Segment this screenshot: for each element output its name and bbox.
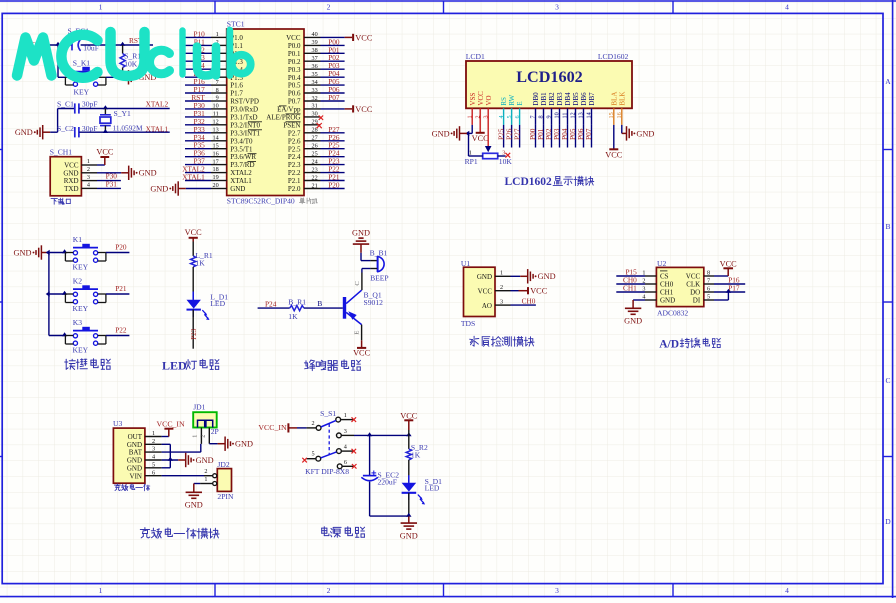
wire MCU pin 16 (P3.6/WR)	[185, 149, 227, 158]
svg-text:20: 20	[213, 182, 219, 189]
svg-text:4: 4	[87, 182, 90, 189]
svg-text:B_B1: B_B1	[370, 249, 388, 258]
svg-text:2: 2	[152, 438, 155, 445]
caption 下载口	[51, 198, 70, 204]
svg-text:39: 39	[312, 39, 318, 46]
svg-text:7: 7	[707, 277, 710, 284]
pin 9 LCD	[546, 115, 553, 118]
svg-text:P2.7: P2.7	[288, 129, 301, 137]
svg-text:BLK: BLK	[618, 92, 626, 106]
ground GND (JD1)	[218, 437, 253, 451]
wire MCU pin 17 (P3.7/RD)	[185, 157, 227, 166]
svg-text:30pF: 30pF	[82, 100, 98, 109]
wire MCU pin 33 (P0.6)	[304, 85, 345, 94]
power VCC (power circuit)	[400, 412, 418, 436]
svg-text:LCD1602: LCD1602	[598, 52, 629, 61]
LED S_D1	[402, 475, 443, 504]
pin 11 LCD	[562, 113, 569, 119]
svg-text:KEY: KEY	[73, 263, 89, 272]
svg-text:36: 36	[312, 63, 318, 70]
svg-text:XTAL1: XTAL1	[230, 177, 252, 185]
svg-text:VCC_IN: VCC_IN	[258, 423, 287, 432]
svg-text:EA/Vpp: EA/Vpp	[277, 106, 301, 114]
svg-text:LED: LED	[210, 299, 225, 308]
svg-text:P3.0/RxD: P3.0/RxD	[230, 106, 258, 114]
svg-text:P1.7: P1.7	[230, 90, 243, 98]
wire buzzer to collector	[354, 269, 377, 291]
pin 12 LCD	[570, 112, 577, 118]
wire MCU pin 24 (P2.3)	[304, 157, 345, 166]
svg-text:GND: GND	[400, 532, 418, 541]
power VCC_IN (power circuit)	[258, 423, 297, 433]
wire U1 pin2 to VCC	[495, 284, 519, 291]
svg-text:VCC: VCC	[185, 228, 203, 237]
wire U3 pin2	[162, 443, 171, 445]
svg-text:2: 2	[204, 468, 207, 475]
svg-text:GND: GND	[63, 169, 78, 177]
wire MCU pin 11 (P3.1/TxD)	[185, 109, 227, 118]
wire MCU pin 32 (P0.7)	[304, 93, 345, 102]
pin 15 LCD	[608, 112, 615, 118]
svg-text:3: 3	[502, 149, 505, 156]
pin 3 LCD	[482, 115, 489, 118]
svg-text:GND: GND	[139, 169, 157, 178]
svg-text:2: 2	[199, 435, 206, 438]
svg-text:5: 5	[312, 451, 315, 458]
svg-text:22: 22	[312, 174, 318, 181]
svg-text:DB4: DB4	[564, 92, 572, 106]
svg-text:GND: GND	[538, 272, 556, 281]
wire emitter to VCC	[354, 325, 362, 341]
wire LCD pin14 DB7 net P07	[584, 108, 593, 147]
wire trunk to K2	[49, 291, 67, 295]
node junction DO/DI	[726, 289, 731, 293]
no-ERC mark S_S1 pin1	[352, 417, 357, 422]
svg-text:VIN: VIN	[130, 472, 142, 480]
svg-text:KEY: KEY	[73, 346, 89, 355]
wire MCU pin 29 (PSEN)	[304, 119, 321, 126]
svg-text:GND: GND	[127, 441, 142, 449]
svg-text:DB6: DB6	[580, 92, 588, 106]
svg-text:E: E	[516, 101, 524, 105]
wire MCU pin 34 (P0.5)	[304, 77, 345, 86]
label 单片机	[300, 198, 318, 204]
wire K2 to net P21	[106, 284, 129, 294]
svg-text:3: 3	[152, 446, 155, 453]
LED L_D1	[187, 292, 229, 321]
svg-text:K1: K1	[73, 235, 82, 244]
svg-text:2P: 2P	[211, 427, 219, 436]
pin 1 JD1	[191, 428, 201, 444]
svg-text:DB0: DB0	[532, 92, 540, 106]
connector JD1 2P	[193, 402, 219, 436]
wire MCU pin 31 (EA/Vpp)	[304, 103, 345, 110]
wire trunk to K3	[49, 332, 67, 336]
svg-text:P3.7/RD: P3.7/RD	[230, 161, 254, 169]
wire trunk to K1	[49, 249, 67, 253]
svg-text:P3.5/T1: P3.5/T1	[230, 145, 253, 153]
svg-text:BAT: BAT	[129, 449, 143, 457]
wire MCU pin 12 (P3.2/INT0)	[185, 117, 227, 126]
svg-text:1K: 1K	[288, 312, 298, 321]
svg-text:LED: LED	[425, 483, 440, 492]
svg-text:PSEN: PSEN	[283, 121, 300, 129]
wire MCU pin 9 (RST/VPD)	[185, 93, 227, 102]
svg-text:P2.4: P2.4	[288, 153, 301, 161]
svg-text:ALE/PROG: ALE/PROG	[266, 114, 300, 122]
pin 8 LCD	[538, 115, 545, 118]
ground GND (buzzer)	[352, 228, 370, 253]
svg-text:P0.7: P0.7	[288, 98, 301, 106]
svg-text:DB5: DB5	[572, 92, 580, 106]
wire U3 pin5	[162, 467, 171, 469]
node junction VCC column	[406, 432, 411, 436]
svg-text:3: 3	[555, 586, 559, 595]
power VCC (MCU pin 40)	[345, 33, 373, 42]
resistor L_R1 1K	[191, 251, 213, 267]
wire MCU pin 22 (P2.1)	[304, 173, 345, 182]
wire U2 pin6 P17	[704, 283, 745, 292]
svg-text:CLK: CLK	[686, 281, 700, 289]
svg-text:LCD1602: LCD1602	[505, 176, 553, 188]
svg-text:GND: GND	[235, 440, 253, 449]
svg-text:P0.3: P0.3	[288, 66, 301, 74]
svg-text:S_C2: S_C2	[57, 124, 74, 133]
svg-text:GND: GND	[230, 185, 245, 193]
wire MCU pin 20 (GND)	[186, 182, 227, 189]
wire LCD pin3 VO	[487, 108, 489, 146]
svg-text:2PIN: 2PIN	[217, 492, 234, 501]
svg-text:16: 16	[213, 150, 219, 157]
svg-text:KFT DIP-8X8: KFT DIP-8X8	[305, 467, 349, 476]
label 充放电一体 (U3)	[114, 484, 149, 491]
svg-text:P20: P20	[328, 181, 340, 190]
svg-text:11: 11	[213, 111, 219, 118]
svg-text:GND: GND	[15, 128, 33, 137]
pin 7 LCD	[530, 115, 537, 118]
wire LCD pin7 DB0 net P00	[528, 108, 537, 147]
pin 13 LCD	[578, 112, 585, 118]
svg-text:A: A	[885, 77, 891, 86]
svg-text:30: 30	[312, 111, 318, 118]
svg-text:12: 12	[213, 119, 219, 126]
svg-text:4: 4	[785, 3, 789, 12]
svg-text:P2.0: P2.0	[288, 185, 301, 193]
svg-text:9: 9	[216, 95, 219, 102]
svg-text:DI: DI	[693, 297, 701, 305]
svg-text:37: 37	[312, 55, 318, 62]
power VCC (LCD pin15 BLA)	[605, 108, 623, 159]
wire MCU pin 37 (P0.2)	[304, 53, 345, 62]
module U3 充放电一体	[113, 419, 145, 483]
svg-text:6: 6	[344, 459, 347, 466]
svg-text:LED: LED	[162, 359, 187, 373]
svg-text:GND: GND	[624, 317, 642, 326]
wire MCU pin 23 (P2.2)	[304, 165, 345, 174]
switch S_S1 KFT DIP-8X8	[305, 409, 354, 476]
ground GND (power circuit)	[400, 516, 418, 541]
power VCC (download port)	[96, 147, 114, 165]
push button K3 KEY	[65, 318, 106, 355]
wire LCD pin4 RS net P25	[496, 108, 505, 147]
svg-text:1K: 1K	[411, 451, 421, 460]
wire U1 pin3 CH0	[495, 296, 536, 305]
wire K1 to net P20	[106, 243, 129, 253]
svg-text:10K: 10K	[124, 59, 138, 68]
pin 6 LCD	[514, 115, 521, 118]
svg-text:P3.1/TxD: P3.1/TxD	[230, 114, 257, 122]
wire MCU pin 18 (XTAL2)	[182, 165, 226, 174]
pin 14 LCD	[586, 112, 593, 118]
power VCC (LCD pin2)	[472, 108, 490, 143]
wire LCD pin1 VSS to gnd	[467, 108, 472, 133]
pin 3 U3 stub	[145, 446, 162, 453]
svg-text:2: 2	[500, 284, 503, 291]
wire cap to RST net	[81, 44, 153, 46]
svg-text:GND: GND	[636, 129, 654, 138]
svg-text:DB2: DB2	[548, 92, 556, 106]
svg-text:5: 5	[707, 293, 710, 300]
svg-text:11.0592M: 11.0592M	[113, 123, 143, 132]
wire MCU pin 36 (P0.3)	[304, 61, 345, 70]
svg-text:VCC: VCC	[353, 349, 371, 358]
svg-text:VCC: VCC	[64, 162, 79, 170]
ground GND (reset)	[121, 70, 156, 84]
wire xtal1	[79, 131, 169, 133]
wire JD2 pin1 to gnd	[194, 476, 213, 483]
svg-text:A/D: A/D	[659, 338, 679, 350]
power VCC_IN (U3 pin1)	[157, 419, 186, 436]
svg-text:RW: RW	[508, 94, 516, 105]
caption A/D转换电路	[659, 338, 720, 350]
svg-text:DB3: DB3	[556, 92, 564, 106]
module U1 TDS	[461, 259, 495, 328]
no-ERC mark pin 29	[317, 123, 322, 128]
wire MCU pin 25 (P2.4)	[304, 149, 345, 158]
svg-text:CH1: CH1	[660, 289, 674, 297]
svg-text:10: 10	[213, 103, 219, 110]
wire MCU pin 5 (P1.4)	[185, 61, 227, 70]
no-ERC mark pin 30	[319, 116, 323, 120]
svg-text:P21: P21	[115, 284, 127, 293]
connector JD2 2PIN	[213, 460, 234, 501]
buzzer B_B1 BEEP	[370, 249, 389, 283]
svg-text:P2.1: P2.1	[288, 177, 301, 185]
svg-text:P2.2: P2.2	[288, 169, 301, 177]
wire U3 pin3 BAT	[162, 444, 201, 452]
svg-text:VCC: VCC	[720, 260, 738, 269]
svg-text:40: 40	[312, 31, 318, 38]
svg-text:P27: P27	[512, 128, 521, 140]
wire U3 pin6 VIN	[162, 475, 204, 477]
wire MCU pin 13 (P3.3/INT1)	[185, 125, 227, 134]
capacitor S_C2 30pF	[57, 124, 98, 137]
svg-text:1: 1	[152, 430, 155, 437]
no-ERC mark S_S1 pin6	[352, 464, 357, 469]
node junction resistor top	[120, 42, 125, 46]
svg-text:3: 3	[344, 428, 347, 435]
wire MCU pin 35 (P0.4)	[304, 69, 345, 78]
svg-text:14: 14	[213, 134, 219, 141]
wire MCU pin 30 (ALE/PROG)	[304, 111, 321, 118]
ground GND (JD2)	[185, 484, 203, 510]
svg-text:P17: P17	[728, 283, 740, 292]
wire key right to RST	[106, 45, 114, 77]
svg-text:21: 21	[312, 182, 318, 189]
wire LCD pin13 DB6 net P06	[576, 108, 585, 147]
wire to switch pin2	[297, 427, 307, 429]
wire MCU pin 28 (P2.7)	[304, 125, 345, 134]
wire MCU pin 1 (P1.0)	[185, 29, 227, 38]
ground GND (LCD left)	[432, 126, 467, 140]
svg-text:GND: GND	[185, 501, 203, 510]
wire MCU pin 14 (P3.4/T0)	[185, 133, 227, 142]
svg-text:2: 2	[642, 277, 645, 284]
svg-text:3: 3	[500, 298, 503, 305]
svg-text:2: 2	[87, 166, 90, 173]
wire base	[304, 299, 343, 308]
svg-text:8: 8	[216, 87, 219, 94]
svg-text:BEEP: BEEP	[370, 274, 389, 283]
svg-text:38: 38	[312, 47, 318, 54]
pin 2 JD1	[199, 428, 209, 444]
wire gnd to buzzer	[361, 253, 377, 261]
svg-text:RP1: RP1	[465, 157, 478, 166]
wire U2 pin3 CH1	[616, 283, 656, 292]
svg-text:GND: GND	[196, 456, 214, 465]
svg-text:3: 3	[555, 3, 559, 12]
svg-text:VCC: VCC	[478, 287, 493, 295]
caption 充放电一体模块	[140, 528, 219, 539]
ground GND (LCD right)	[622, 126, 655, 140]
power VCC (LED)	[185, 228, 203, 241]
ground GND (U1)	[520, 269, 555, 283]
svg-text:KEY: KEY	[73, 304, 89, 313]
svg-text:RS: RS	[500, 97, 508, 106]
svg-text:2: 2	[327, 586, 331, 595]
wire MCU pin 2 (P1.1)	[185, 37, 227, 46]
resistor S_R1 10K	[120, 45, 141, 77]
wire R2 to LED	[408, 460, 410, 483]
svg-text:P1.6: P1.6	[230, 82, 243, 90]
svg-text:VCC: VCC	[96, 147, 114, 156]
svg-text:32: 32	[312, 95, 318, 102]
wire U2 pin7 P16	[704, 275, 745, 284]
svg-text:DB7: DB7	[588, 92, 596, 106]
no-ERC mark S_S1 pin5	[302, 458, 307, 463]
wire LCD pin11 DB4 net P04	[560, 108, 569, 147]
ground GND (keys)	[14, 245, 49, 259]
svg-text:RST/VPD: RST/VPD	[230, 98, 259, 106]
svg-text:31: 31	[312, 103, 318, 110]
svg-text:4: 4	[152, 454, 155, 461]
pin 5 LCD	[506, 115, 513, 118]
svg-text:VCC: VCC	[355, 105, 373, 114]
svg-text:8: 8	[707, 269, 710, 276]
svg-text:D: D	[885, 517, 891, 526]
svg-text:3: 3	[87, 174, 90, 181]
wire U2 pin8 to VCC	[704, 269, 728, 276]
pin 6 U3 stub	[145, 469, 162, 476]
svg-text:GND: GND	[14, 248, 32, 257]
svg-text:24: 24	[312, 158, 318, 165]
capacitor S_C1 30pF	[57, 100, 98, 114]
svg-text:1: 1	[87, 158, 90, 165]
svg-text:18: 18	[213, 166, 219, 173]
pin 4 LCD	[498, 115, 505, 118]
wire MCU pin 10 (P3.0/RxD)	[185, 101, 227, 110]
svg-text:17: 17	[213, 158, 219, 165]
svg-text:1: 1	[99, 586, 103, 595]
ground GND (MCU pin 20)	[150, 181, 185, 195]
wire MCU pin 21 (P2.0)	[304, 181, 345, 190]
power VCC (MCU pin 31 EA)	[345, 105, 373, 114]
caption LED灯电路	[162, 359, 219, 373]
svg-text:K2: K2	[73, 277, 82, 286]
svg-text:2: 2	[327, 3, 331, 12]
wire MCU pin 6 (P1.5)	[185, 69, 227, 78]
svg-text:S_C1: S_C1	[57, 100, 74, 109]
node junction cap branch	[367, 432, 372, 436]
power VCC (buzzer)	[353, 340, 371, 357]
svg-text:XTAL2: XTAL2	[146, 99, 169, 108]
svg-text:CH0: CH0	[660, 281, 674, 289]
svg-text:VCC: VCC	[472, 134, 490, 143]
svg-text:U3: U3	[113, 419, 122, 428]
svg-text:GND: GND	[660, 297, 675, 305]
svg-text:VCC: VCC	[605, 150, 623, 159]
caption 按键电路	[65, 359, 111, 370]
resistor S_R2 1K	[406, 443, 428, 460]
transistor B_Q1 S9012	[343, 290, 383, 324]
wire U2 pin2 CH0	[616, 275, 656, 284]
svg-text:P0.5: P0.5	[288, 82, 301, 90]
power VCC (U1)	[519, 287, 548, 296]
svg-text:1: 1	[500, 270, 503, 277]
wire LCD pin12 DB5 net P05	[568, 108, 577, 147]
node junction key-right riser	[111, 42, 116, 46]
node junction xtal2	[103, 105, 108, 109]
wire pin3 P30	[97, 172, 121, 181]
svg-text:S9012: S9012	[364, 298, 384, 307]
svg-text:GND: GND	[352, 228, 370, 237]
pin 1 U3 stub	[145, 430, 162, 437]
ground GND (download port)	[121, 166, 156, 180]
chip U2 ADC0832	[656, 259, 703, 317]
wire LCD pin16 BLK to gnd	[621, 108, 623, 133]
wire pin2 to gnd	[97, 172, 121, 174]
wire LCD pin9 DB2 net P02	[544, 108, 553, 147]
svg-text:VCC: VCC	[530, 287, 548, 296]
svg-text:S_K1: S_K1	[73, 58, 91, 67]
no-ERC mark S_S1 pin4	[352, 449, 357, 454]
caption 电源电路	[322, 527, 365, 538]
wire gnd to caps trunk	[50, 109, 74, 133]
svg-text:34: 34	[312, 79, 318, 86]
capacitor S_EC2 220uF	[362, 435, 409, 516]
svg-text:VSS: VSS	[469, 93, 477, 106]
label STC89C52RC_DIP40	[227, 197, 295, 206]
display module LCD1 LCD1602	[466, 52, 632, 108]
pin 16 LCD	[616, 112, 623, 118]
svg-text:15: 15	[213, 142, 219, 149]
svg-text:DO: DO	[690, 289, 700, 297]
pin 1 LCD	[466, 115, 473, 118]
wire vcc to resistor	[192, 242, 194, 256]
svg-text:P3.2/INT0: P3.2/INT0	[230, 121, 260, 129]
node junction xtal1	[103, 129, 108, 133]
wire LCD pin8 DB1 net P01	[536, 108, 545, 147]
